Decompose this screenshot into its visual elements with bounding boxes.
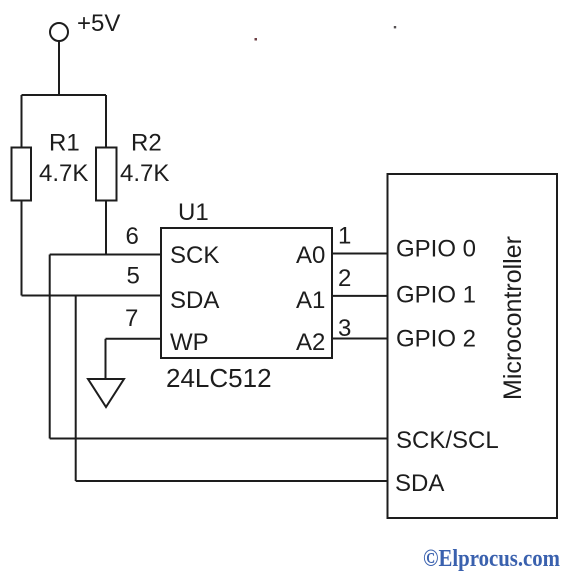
- wire top horizontal bus: [22, 94, 107, 96]
- svg-text:SDA: SDA: [170, 287, 219, 314]
- svg-text:R1: R1: [49, 130, 80, 157]
- resistor R1 body: [12, 148, 32, 201]
- svg-text:4.7K: 4.7K: [39, 160, 88, 187]
- svg-text:GPIO 1: GPIO 1: [396, 282, 476, 309]
- svg-text:SCK/SCL: SCK/SCL: [396, 427, 499, 454]
- wire SDA vertical drop: [75, 296, 77, 482]
- wire SDA horizontal into pin 5: [22, 295, 162, 297]
- wire R2 bottom lead to SCK node: [105, 201, 107, 255]
- svg-text:24LC512: 24LC512: [166, 363, 272, 393]
- svg-text:7: 7: [125, 305, 138, 332]
- svg-text:4.7K: 4.7K: [120, 160, 169, 187]
- svg-text:6: 6: [126, 223, 139, 250]
- svg-text:A0: A0: [296, 242, 325, 269]
- svg-text:U1: U1: [178, 199, 209, 226]
- svg-text:A1: A1: [296, 287, 325, 314]
- svg-text:SDA: SDA: [395, 470, 444, 497]
- svg-text:5: 5: [127, 263, 140, 290]
- wire R2 top lead: [105, 95, 107, 148]
- svg-text:Microcontroller: Microcontroller: [499, 236, 527, 400]
- wire SCK vertical drop: [49, 255, 51, 439]
- ground symbol: [88, 379, 124, 407]
- wire SCK horizontal into pin 6: [50, 254, 161, 256]
- svg-text:SCK: SCK: [170, 242, 219, 269]
- svg-text:GPIO 2: GPIO 2: [396, 326, 476, 353]
- resistor R2 body: [96, 148, 117, 201]
- wire R1 bottom lead to SDA node: [21, 201, 23, 296]
- microcontroller box: [388, 174, 558, 518]
- wire pin 3 A2 to GPIO 2: [332, 338, 388, 340]
- wire WP pin 7 lead: [106, 338, 162, 340]
- wire SDA horizontal to microcontroller: [76, 480, 388, 482]
- op-amp U1 24LC512 IC body: [161, 228, 332, 358]
- svg-text:©Elprocus.com: ©Elprocus.com: [423, 546, 560, 572]
- wire SCK/SCL horizontal to microcontroller: [50, 438, 388, 440]
- svg-text:+5V: +5V: [77, 10, 120, 37]
- wire pin 1 A0 to GPIO 0: [332, 253, 388, 255]
- svg-text:A2: A2: [296, 329, 325, 356]
- wire WP ground drop: [105, 339, 107, 379]
- wire +5V stem: [58, 41, 60, 95]
- svg-text:1: 1: [338, 223, 351, 250]
- svg-text:R2: R2: [131, 130, 162, 157]
- svg-text:GPIO 0: GPIO 0: [396, 236, 476, 263]
- red dot artifact left: [255, 38, 258, 41]
- svg-text:WP: WP: [170, 329, 209, 356]
- dark dot artifact right: [394, 26, 396, 28]
- svg-text:2: 2: [338, 265, 351, 292]
- svg-text:3: 3: [338, 315, 351, 342]
- power terminal +5V circle: [50, 23, 68, 41]
- wire pin 2 A1 to GPIO 1: [332, 295, 388, 297]
- wire R1 top lead: [21, 95, 23, 148]
